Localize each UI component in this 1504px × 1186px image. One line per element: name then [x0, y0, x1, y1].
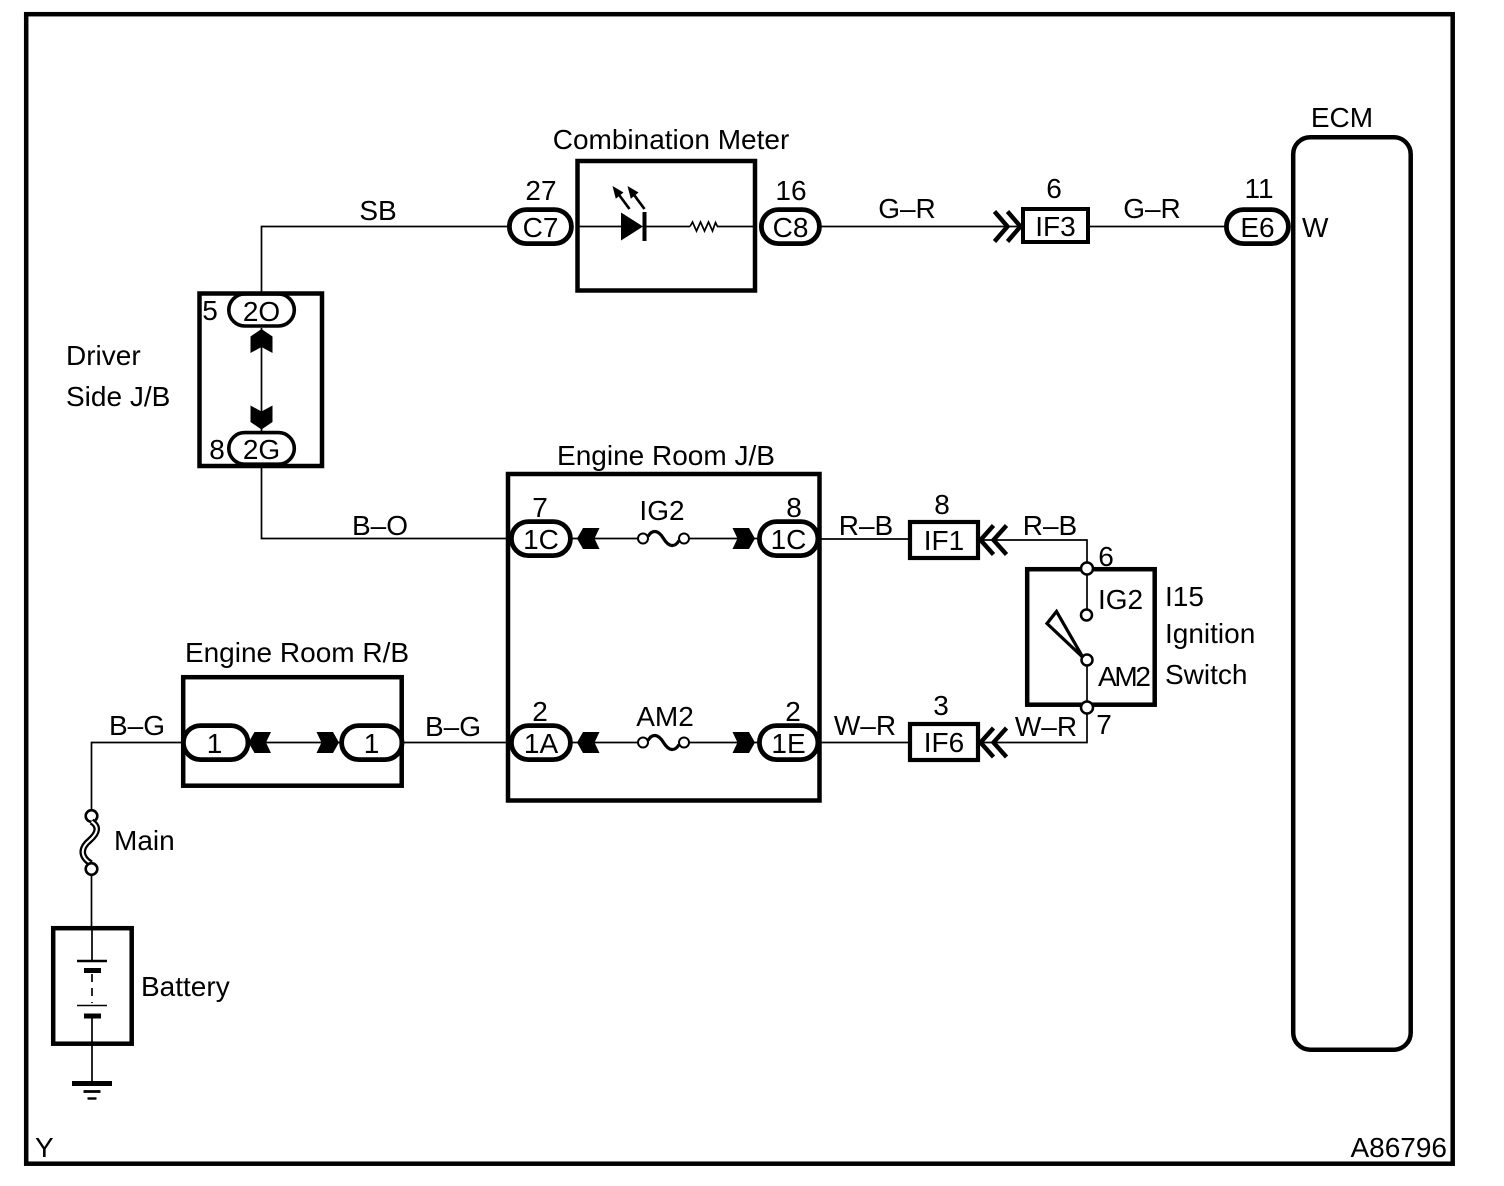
svg-text:W–R: W–R — [834, 710, 896, 741]
svg-text:Ignition: Ignition — [1165, 618, 1255, 649]
wire R-B from chevron to node 6 — [979, 540, 1087, 562]
svg-text:W: W — [1302, 212, 1329, 243]
svg-text:1E: 1E — [771, 728, 805, 759]
switch I15 Ignition Switch — [1027, 569, 1155, 705]
arrow right — [733, 528, 756, 549]
svg-text:8: 8 — [786, 492, 802, 523]
svg-text:27: 27 — [525, 175, 556, 206]
svg-text:E6: E6 — [1240, 212, 1274, 243]
svg-text:SB: SB — [359, 195, 396, 226]
svg-text:AM2: AM2 — [636, 701, 694, 732]
relay block Engine Room R/B — [183, 677, 402, 786]
svg-text:G–R: G–R — [1123, 193, 1181, 224]
switch lever — [1047, 612, 1083, 658]
LED emission arrows — [620, 196, 630, 210]
svg-text:I15: I15 — [1165, 581, 1204, 612]
wire SB from 2O to C7 — [262, 227, 510, 295]
svg-text:1: 1 — [207, 728, 223, 759]
svg-text:16: 16 — [775, 175, 806, 206]
wire G-R from C8 to IF3 — [820, 226, 1022, 228]
svg-text:Main: Main — [114, 825, 175, 856]
arrow left — [249, 732, 272, 753]
svg-text:IF1: IF1 — [924, 525, 964, 556]
svg-text:W–R: W–R — [1015, 711, 1077, 742]
wire — [689, 742, 758, 744]
wire B-G from R/B to 1A — [404, 742, 511, 744]
svg-text:C8: C8 — [773, 212, 809, 243]
svg-text:Side J/B: Side J/B — [66, 381, 170, 412]
wire — [572, 742, 638, 744]
arrow down — [251, 406, 273, 430]
arrow up — [251, 329, 273, 353]
component box Combination Meter — [578, 161, 756, 291]
svg-text:6: 6 — [1098, 541, 1114, 572]
svg-text:6: 6 — [1046, 173, 1062, 204]
resistor — [690, 222, 718, 231]
wire — [717, 226, 757, 228]
svg-text:A86796: A86796 — [1350, 1132, 1447, 1163]
wire — [1086, 666, 1088, 702]
terminal IG2 — [1081, 610, 1092, 621]
wire to battery — [91, 875, 93, 928]
svg-text:7: 7 — [532, 492, 548, 523]
fuse AM2 — [638, 738, 648, 748]
wire inside meter — [576, 226, 621, 228]
svg-text:B–O: B–O — [352, 510, 408, 541]
svg-text:Y: Y — [35, 1132, 54, 1163]
chevrons left — [981, 728, 1007, 757]
wire W-R from 1E to IF6 — [820, 742, 910, 744]
svg-text:7: 7 — [1096, 709, 1112, 740]
wire W-R from node 7 to IF6 — [979, 714, 1087, 743]
wire R-B from 1C to IF1 — [820, 538, 910, 540]
svg-text:B–G: B–G — [109, 710, 165, 741]
svg-text:C7: C7 — [523, 212, 559, 243]
svg-text:B–G: B–G — [425, 711, 481, 742]
svg-text:3: 3 — [933, 690, 949, 721]
junction block Driver Side J/B — [200, 294, 323, 467]
svg-text:IF3: IF3 — [1035, 211, 1075, 242]
svg-text:R–B: R–B — [839, 510, 893, 541]
connector 1 left — [183, 726, 248, 760]
svg-text:11: 11 — [1244, 173, 1273, 204]
node 7 — [1081, 702, 1093, 714]
LED D1 — [621, 213, 643, 241]
arrow left — [577, 528, 600, 549]
battery — [53, 928, 132, 1043]
connector C8 — [761, 210, 819, 244]
connector 1 right — [342, 726, 402, 760]
wire — [1086, 575, 1088, 610]
connector 1A — [511, 726, 570, 760]
svg-text:8: 8 — [209, 434, 225, 465]
svg-text:G–R: G–R — [878, 193, 936, 224]
svg-text:2: 2 — [532, 696, 548, 727]
ECM block — [1293, 137, 1411, 1049]
wire G-R from IF3 to E6 — [1088, 226, 1226, 228]
connector 1C right — [759, 522, 818, 556]
svg-text:1C: 1C — [771, 524, 807, 555]
svg-text:5: 5 — [202, 295, 218, 326]
chevrons right — [995, 212, 1021, 242]
wire B-G from battery to R/B — [92, 743, 185, 811]
connector 1C left — [511, 522, 570, 556]
svg-text:ECM: ECM — [1311, 102, 1373, 133]
connector 2O — [229, 294, 294, 326]
svg-text:IG2: IG2 — [1098, 584, 1143, 615]
connector C7 — [509, 210, 571, 244]
wire 2O to 2G — [261, 328, 263, 431]
chevrons left — [981, 526, 1007, 555]
svg-text:Switch: Switch — [1165, 659, 1247, 690]
junction block Engine Room J/B — [508, 474, 820, 801]
fuse IG2 — [638, 534, 648, 544]
wire — [246, 742, 341, 744]
fusible link Main — [86, 810, 98, 822]
svg-text:8: 8 — [934, 489, 950, 520]
svg-text:IF6: IF6 — [924, 727, 964, 758]
svg-text:1A: 1A — [524, 728, 559, 759]
wire B-O from 2G to 1C — [262, 466, 510, 539]
svg-text:R–B: R–B — [1023, 510, 1077, 541]
node 6 — [1081, 563, 1093, 575]
connector E6 — [1226, 210, 1288, 244]
svg-text:Engine Room J/B: Engine Room J/B — [557, 440, 775, 471]
svg-text:1: 1 — [364, 728, 380, 759]
connector IF3 — [1023, 209, 1088, 242]
arrow left — [577, 732, 600, 753]
svg-text:2O: 2O — [243, 296, 280, 327]
svg-text:Driver: Driver — [66, 340, 141, 371]
ground — [72, 1081, 112, 1086]
connector IF6 — [910, 724, 978, 760]
svg-text:Battery: Battery — [141, 971, 230, 1002]
arrow right — [317, 732, 340, 753]
terminal AM2 — [1082, 655, 1093, 666]
svg-text:1C: 1C — [523, 524, 559, 555]
svg-text:2G: 2G — [243, 434, 280, 465]
svg-text:Combination Meter: Combination Meter — [553, 124, 790, 155]
wire — [689, 538, 758, 540]
arrow right — [733, 732, 756, 753]
svg-text:2: 2 — [785, 696, 801, 727]
svg-text:AM2: AM2 — [1098, 661, 1151, 692]
svg-text:Engine Room R/B: Engine Room R/B — [185, 637, 409, 668]
wire — [647, 226, 691, 228]
wire — [572, 538, 638, 540]
connector 2G — [229, 433, 294, 465]
connector 1E — [759, 726, 818, 760]
connector IF1 — [910, 522, 978, 558]
svg-text:IG2: IG2 — [639, 495, 684, 526]
